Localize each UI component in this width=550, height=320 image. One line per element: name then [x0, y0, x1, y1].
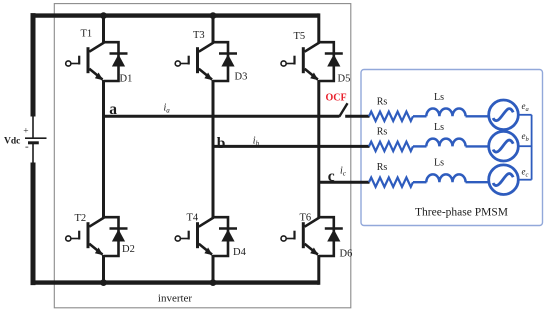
transistor T6 (IGBT) — [281, 218, 319, 256]
label eb — [522, 131, 530, 143]
wire: phase b from node b into PMSM — [213, 145, 370, 148]
svg-text:D6: D6 — [340, 249, 353, 260]
node b label — [217, 135, 226, 152]
svg-text:D2: D2 — [122, 244, 135, 255]
AC source ea (back-EMF phase a) — [489, 100, 519, 130]
wire: phase a from node a to OCF switch — [104, 115, 340, 118]
diode D3 — [219, 54, 237, 67]
svg-text:D3: D3 — [235, 72, 248, 83]
svg-text:T4: T4 — [187, 213, 199, 224]
transistor T2 (IGBT) — [66, 218, 104, 256]
wire: phase c from node c into PMSM — [319, 181, 370, 184]
wire: leg 3 (phase c) lower segment — [317, 255, 320, 285]
wire: leg 2 (phase b) middle segment — [212, 80, 215, 218]
AC source eb (back-EMF phase b) — [489, 131, 519, 161]
wire: freewheeling-diode branch of T3 — [213, 42, 228, 81]
transistor T4 (IGBT) — [175, 218, 213, 256]
label Rs (phase c) — [377, 162, 388, 173]
diode D4 — [219, 229, 237, 242]
wire: leg 1 (phase a) upper segment — [102, 16, 105, 44]
svg-text:Rs: Rs — [377, 96, 388, 107]
inductor Ls (phase a) — [426, 109, 465, 117]
wire: Ls to source (phase a) — [466, 115, 490, 117]
label OCF — [326, 93, 347, 104]
Three-phase PMSM label — [415, 207, 508, 219]
junction dot top rail leg2 — [210, 12, 217, 19]
wire: Rs to Ls (phase c) — [413, 181, 427, 183]
junction dot bottom rail leg1 — [100, 279, 107, 286]
node c label — [328, 168, 335, 185]
label D4 — [233, 247, 247, 258]
wire: Ls to source (phase b) — [466, 145, 490, 147]
svg-text:OCF: OCF — [326, 93, 347, 104]
label D1 — [120, 74, 133, 85]
svg-text:D4: D4 — [233, 247, 247, 258]
inverter box outline — [54, 4, 351, 308]
diode D6 — [325, 229, 343, 242]
resistor Rs (phase b) — [369, 142, 413, 151]
svg-text:+: + — [23, 127, 28, 137]
wire: source to neutral bus (phase a) — [518, 114, 531, 116]
svg-text:T6: T6 — [300, 213, 312, 224]
battery Vdc negative plate — [28, 141, 39, 144]
label Ls (phase b) — [434, 122, 444, 133]
label D3 — [235, 72, 248, 83]
svg-text:Ls: Ls — [434, 92, 444, 103]
diode D5 — [325, 54, 343, 67]
svg-text:Ls: Ls — [434, 122, 444, 133]
wire: leg 3 (phase c) middle segment — [317, 80, 320, 218]
wire: neutral bus — [531, 115, 533, 180]
svg-text:T5: T5 — [294, 31, 306, 42]
svg-text:T2: T2 — [75, 213, 87, 224]
svg-text:ic: ic — [340, 166, 347, 178]
svg-text:Ls: Ls — [434, 158, 444, 169]
svg-text:b: b — [217, 135, 226, 152]
battery - sign — [25, 141, 29, 153]
junction dot top rail leg1 — [100, 12, 107, 19]
battery Vdc positive plate — [25, 137, 47, 139]
wire: top DC rail — [31, 13, 319, 17]
wire: leg 1 (phase a) lower segment — [102, 255, 105, 283]
current label ia — [164, 103, 171, 115]
transistor T3 (IGBT) — [175, 43, 213, 81]
transistor T1 (IGBT) — [66, 43, 104, 81]
wire: freewheeling-diode branch of T6 — [319, 217, 334, 256]
resistor Rs (phase c) — [369, 178, 413, 187]
label Ls (phase a) — [434, 92, 444, 103]
label Rs (phase b) — [377, 126, 388, 137]
wire: phase a from OCF switch into PMSM — [345, 115, 369, 118]
inductor Ls (phase b) — [426, 139, 465, 147]
svg-text:Rs: Rs — [377, 162, 388, 173]
svg-text:eb: eb — [522, 131, 530, 143]
svg-text:c: c — [328, 168, 335, 185]
wire: leg 2 (phase b) upper segment — [212, 16, 215, 44]
label Rs (phase a) — [377, 96, 388, 107]
inverter label — [158, 293, 193, 305]
diode D2 — [110, 229, 128, 242]
wire: Ls to source (phase c) — [466, 181, 490, 183]
label D5 — [338, 74, 351, 85]
wire: leg 1 (phase a) middle segment — [102, 80, 105, 218]
wire: freewheeling-diode branch of T1 — [104, 42, 119, 81]
current label ib — [253, 136, 260, 148]
wire: source to neutral bus (phase b) — [518, 145, 531, 147]
svg-text:Vdc: Vdc — [4, 137, 20, 147]
OCF switch lever (open-circuit fault) — [339, 103, 347, 116]
wire: battery positive to top rail — [32, 13, 34, 138]
AC source ec (back-EMF phase c) — [489, 165, 519, 195]
svg-text:ec: ec — [522, 167, 529, 179]
wire: leg 3 (phase c) upper segment — [317, 13, 320, 43]
wire: freewheeling-diode branch of T5 — [319, 42, 334, 81]
wire: battery negative to bottom rail — [32, 144, 34, 286]
node a label — [109, 101, 117, 118]
label D6 — [340, 249, 353, 260]
label Ls (phase c) — [434, 158, 444, 169]
wire: Rs to Ls (phase a) — [413, 115, 427, 117]
label D2 — [122, 244, 135, 255]
svg-text:T3: T3 — [193, 30, 205, 41]
svg-text:T1: T1 — [81, 28, 93, 39]
three-phase PMSM box outline — [361, 70, 543, 226]
battery + sign — [23, 127, 28, 137]
label ea — [522, 101, 529, 113]
wire: freewheeling-diode branch of T2 — [104, 217, 119, 256]
svg-text:inverter: inverter — [158, 293, 193, 305]
current label ic — [340, 166, 347, 178]
label T5 — [294, 31, 306, 42]
resistor Rs (phase a) — [369, 112, 413, 121]
svg-text:D1: D1 — [120, 74, 133, 85]
label T6 — [300, 213, 312, 224]
wire: freewheeling-diode branch of T4 — [213, 217, 228, 256]
wire: bottom DC rail — [31, 280, 319, 284]
svg-text:Rs: Rs — [377, 126, 388, 137]
label T4 — [187, 213, 199, 224]
svg-text:ea: ea — [522, 101, 529, 113]
label T2 — [75, 213, 87, 224]
wire: leg 2 (phase b) lower segment — [212, 255, 215, 283]
wire: Rs to Ls (phase b) — [413, 145, 427, 147]
svg-text:a: a — [109, 101, 117, 118]
label Vdc — [4, 137, 20, 147]
inductor Ls (phase c) — [426, 174, 465, 182]
svg-text:ia: ia — [164, 103, 171, 115]
svg-text:-: - — [25, 141, 29, 153]
svg-text:ib: ib — [253, 136, 260, 148]
label ec — [522, 167, 529, 179]
junction dot bottom rail leg2 — [210, 279, 217, 286]
wire: source to neutral bus (phase c) — [518, 179, 531, 181]
svg-text:Three-phase PMSM: Three-phase PMSM — [415, 207, 508, 219]
label T1 — [81, 28, 93, 39]
label T3 — [193, 30, 205, 41]
diode D1 — [110, 54, 128, 67]
svg-text:D5: D5 — [338, 74, 351, 85]
transistor T5 (IGBT) — [281, 43, 319, 81]
